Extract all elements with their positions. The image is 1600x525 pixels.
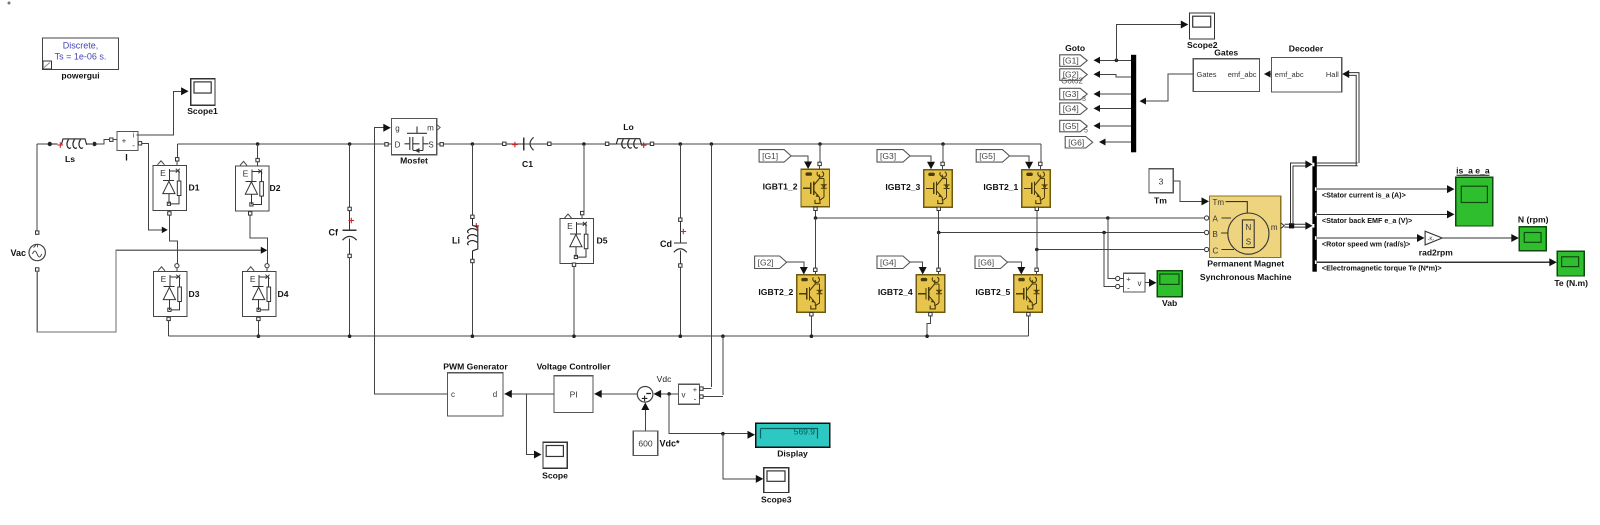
svg-text:Lo: Lo [623,122,634,132]
svg-text:Discrete,: Discrete, [63,41,99,51]
svg-text:C: C [1213,247,1219,256]
wire sum output branch to Display [669,394,723,434]
gain rad2rpm [1419,231,1453,257]
AC source Vac [10,244,45,261]
wire G1 branch to Scope2 [1116,25,1181,61]
goto tag [G4] [1060,103,1088,115]
svg-text:Tm: Tm [1213,198,1225,207]
wire 600 to sum [644,410,646,431]
wire IGBT2_5 emitter to DC- rail [1027,313,1030,316]
svg-text:<Rotor speed wm (rad/s)>: <Rotor speed wm (rad/s)> [1322,240,1410,249]
wire Voltage Controller to PWM d input [505,393,555,395]
wire DC+ top rail [178,143,1041,145]
wire phase A to PMSM [816,217,1207,219]
IGBT IGBT2_2 [758,275,825,313]
wire demux to G1 [1095,59,1132,61]
wire Vdc- sense from bottom rail [721,334,725,338]
svg-text:[G4]: [G4] [880,257,896,267]
svg-text:Ts = 1e-06 s.: Ts = 1e-06 s. [55,52,107,62]
svg-text:D3: D3 [189,289,200,299]
IGBT IGBT2_5 [975,275,1042,313]
svg-text:S: S [428,141,433,150]
svg-text:<Stator current is_a (A)>: <Stator current is_a (A)> [1322,191,1406,200]
bus wire PMSM m to bus selector [1281,223,1285,229]
capacitor C1 [503,137,551,169]
from tag [G4] [877,256,910,269]
diode D5 [560,214,608,264]
svg-text:Vdc*: Vdc* [660,439,681,449]
svg-text:v: v [1138,279,1142,288]
wire Vab to scope [1145,282,1150,284]
wire demux to G4 [1095,107,1132,109]
svg-text:[G4]: [G4] [1063,104,1079,114]
wire node B: D2 bottom to D4 top [250,215,267,264]
wire rail to IGBT2_3 collector [941,142,945,146]
corner artifact dot [8,2,11,5]
wire rail end to IGBT2_1 collector [1040,144,1042,162]
wire phase C to PMSM [1037,249,1206,251]
wire branch to Scope3 [723,434,756,479]
svg-text:emf_abc: emf_abc [1228,70,1257,79]
svg-text:Cf: Cf [329,228,339,238]
wire D3 bottom to DC- rail [167,317,170,320]
svg-text:E: E [250,274,256,284]
svg-text:-K-: -K- [1428,237,1435,243]
Voltage Controller block [537,362,612,413]
wire G3 to IGBT2_3 gate [910,156,931,162]
wire D5 bottom to DC- rail [572,263,575,266]
svg-text:Vac: Vac [10,248,26,258]
wire Decoder to Gates [1265,73,1272,75]
svg-text:[G6]: [G6] [978,257,994,267]
svg-text:+: + [693,385,698,394]
wire sum to Voltage Controller [595,393,638,395]
wire rail to IGBT1_2 collector [818,142,822,146]
svg-text:Scope2: Scope2 [1187,40,1218,50]
svg-text:m: m [1271,223,1278,232]
svg-text:<Stator back EMF e_a (V)>: <Stator back EMF e_a (V)> [1322,216,1412,225]
svg-text:Gates: Gates [1197,70,1217,79]
Gates block [1193,48,1259,92]
wire D1 top stub [177,144,179,158]
wire phase C down to IGBT2_5 collector [1036,250,1038,269]
svg-text:Scope: Scope [542,471,568,481]
svg-text:Mosfet: Mosfet [400,156,428,166]
svg-text:+: + [122,137,127,146]
scope Te [1554,251,1588,288]
IGBT IGBT1_2 [763,169,830,207]
wire Vdc measurement to sum [654,393,679,395]
PMSM port B [1205,230,1209,234]
svg-text:Decoder: Decoder [1289,44,1324,54]
wire phase B tap to Vab- [1102,231,1106,235]
wire PWM to Mosfet gate [375,128,448,394]
from tag [G2] [755,256,787,269]
wire demux to G2 [1095,74,1132,77]
wire Vac bottom loop to bridge node B [36,268,39,271]
wire torque signal [1317,261,1550,263]
inductor Lo [605,122,653,148]
wire IGBT2_1 emitter to phase C [1035,207,1038,210]
svg-text:E: E [160,168,166,178]
wire demux to G5 [1095,125,1132,127]
svg-text:Vab: Vab [1162,298,1177,308]
PMSM port A [1205,216,1209,220]
svg-text:IGBT2_1: IGBT2_1 [983,182,1018,192]
svg-text:D2: D2 [270,183,281,193]
wire IGBT2_4 emitter to DC- rail [929,313,932,316]
wire rail into Mosfet D [385,143,388,146]
wire Vac top to Ls [36,231,39,234]
svg-text:B: B [1213,230,1218,239]
diode D3 [154,267,200,317]
wire Mosfet S out [440,143,443,146]
diode D2 [236,161,281,211]
inductor Ls [48,139,97,164]
scope N rpm [1518,214,1549,250]
svg-text:Scope1: Scope1 [187,106,218,116]
wire phase B to PMSM [939,232,1206,234]
svg-text:PI: PI [570,390,578,400]
wire G2 to IGBT2_2 gate [787,262,804,267]
wire DC- bottom rail [169,335,1029,337]
svg-text:I: I [125,153,128,163]
wire I minus-output down to bridge node A [138,142,141,145]
svg-text:Te (N.m): Te (N.m) [1554,278,1588,288]
goto tag [G5] [1060,120,1088,132]
display Display [756,423,830,458]
wire rail to D5 top [582,142,586,146]
wire I i-output to Scope1 [137,91,181,135]
svg-text:PWM Generator: PWM Generator [443,362,508,372]
wire rotor speed signal [1317,237,1418,239]
wire IGBT2_2 emitter to DC- rail [810,313,813,316]
wire Vdc+ port [700,387,703,390]
svg-text:[G2]: [G2] [758,257,774,267]
capacitor Cd [660,142,687,338]
svg-text:[G1]: [G1] [1063,56,1079,66]
svg-text:[G5]: [G5] [979,151,995,161]
wire node A: D1 bottom to D3 top [169,215,177,264]
svg-text:Display: Display [777,449,808,459]
wire branch to Scope [527,394,535,455]
svg-text:Synchronous Machine: Synchronous Machine [1200,272,1292,282]
svg-text:D: D [395,141,401,150]
bus wire selector to Decoder Hall [1317,162,1358,164]
svg-text:rad2rpm: rad2rpm [1419,248,1453,258]
svg-text:[G5]: [G5] [1063,121,1079,131]
wire G4 to IGBT2_4 gate [910,262,923,267]
goto tag [G1] [1060,55,1088,67]
svg-text:IGBT1_2: IGBT1_2 [763,182,798,192]
svg-text:c: c [451,390,455,399]
demux [1131,55,1136,153]
bus selector [1312,156,1316,272]
svg-text:D5: D5 [597,236,608,246]
PWM Generator block [443,362,508,417]
Decoder block [1272,44,1342,92]
svg-text:Li: Li [452,236,460,246]
goto tag [G3] [1060,88,1088,100]
scope Vab [1157,271,1182,308]
svg-text:Tm: Tm [1154,196,1167,206]
capacitor Cf [329,142,357,338]
svg-text:+: + [1126,275,1131,284]
scope Scope1 [187,79,218,116]
svg-text:v: v [682,391,686,400]
IGBT IGBT2_3 [885,170,952,208]
bus junction [1289,223,1294,228]
wire D4 bottom to DC- rail [257,317,260,320]
PMSM block [1200,196,1292,282]
wire demux to G3 [1095,93,1132,95]
svg-text:E: E [161,274,167,284]
svg-text:[G6]: [G6] [1068,137,1084,147]
svg-text:powergui: powergui [61,71,99,81]
scope is_a e_a [1456,165,1493,226]
wire Vdc+ sense from top rail [710,142,714,146]
svg-text:S: S [1246,237,1251,246]
svg-text:Ls: Ls [65,154,75,164]
svg-text:A: A [1213,215,1219,224]
svg-text:[G3]: [G3] [880,151,896,161]
goto tag [G6] [1065,137,1093,149]
from tag [G3] [877,150,910,163]
svg-text:E: E [567,221,573,231]
diode D4 [243,267,289,317]
svg-text:N (rpm): N (rpm) [1518,214,1549,224]
svg-text:emf_abc: emf_abc [1275,70,1304,79]
svg-text:3: 3 [1159,177,1164,187]
from tag [G5] [976,150,1009,163]
scope Scope3 [761,468,792,505]
svg-text:Voltage Controller: Voltage Controller [537,362,612,372]
wire Ls to I block [96,140,109,144]
svg-text:IGBT2_3: IGBT2_3 [885,182,920,192]
svg-text:Goto: Goto [1065,43,1085,53]
svg-text:D1: D1 [189,183,200,193]
diode D1 [153,161,200,211]
scope Scope [542,442,568,480]
wire demux to G6 [1100,141,1131,143]
wire Gates output to demux [1144,74,1194,101]
svg-text:569.9: 569.9 [794,427,816,437]
svg-text:IGBT2_5: IGBT2_5 [975,287,1010,297]
bus wire up to Hall loop [1290,163,1307,225]
svg-text:600: 600 [638,439,652,449]
wire IGBT1_2 emitter to phase A [814,207,817,210]
svg-text:g: g [395,124,399,133]
from tag [G6] [975,256,1008,269]
svg-text:m: m [427,124,434,133]
svg-text:Scope3: Scope3 [761,495,792,505]
svg-text:IGBT2_4: IGBT2_4 [878,287,913,297]
svg-text:E: E [243,168,249,178]
svg-text:[G3]: [G3] [1063,89,1079,99]
wire G1 to IGBT1_2 gate [791,156,808,162]
svg-text:D4: D4 [278,289,289,299]
voltage measurement Vdc [657,374,700,404]
svg-text:d: d [493,390,497,399]
goto tag [G2] [1060,69,1088,81]
svg-text:<Electromagnetic torque Te (N*: <Electromagnetic torque Te (N*m)> [1322,264,1442,273]
svg-text:Goto2: Goto2 [1061,77,1083,86]
wire G5 to IGBT2_1 gate [1010,156,1030,162]
svg-text:Hall: Hall [1326,70,1339,79]
svg-text:IGBT2_2: IGBT2_2 [758,287,793,297]
svg-text:-: - [132,141,135,150]
svg-text:Vdc: Vdc [657,374,672,384]
wire IGBT2_3 emitter to phase B [937,207,940,210]
from tag [G1] [759,150,791,163]
svg-text:Gates: Gates [1214,48,1238,58]
svg-text:is_a e_a: is_a e_a [1456,165,1490,175]
PMSM port C [1205,247,1209,251]
powergui block [43,38,119,81]
voltage measurement Vab block [1124,273,1145,292]
wire phase A tap to Vab+ [1106,216,1110,220]
wire phase B down to IGBT2_4 collector [938,233,940,269]
wire rad2rpm to N scope [1442,237,1512,239]
svg-text:3: 3 [1082,96,1086,103]
svg-text:-: - [694,395,697,404]
Mosfet block [392,119,441,166]
wire G6 to IGBT2_5 gate [1008,262,1022,267]
scope Scope2 [1187,13,1218,50]
svg-text:Cd: Cd [660,239,672,249]
current measurement I [117,131,138,162]
constant Tm 3 [1149,169,1173,206]
constant Vdc* 600 [633,431,680,456]
IGBT IGBT2_4 [878,275,945,313]
svg-text:C1: C1 [522,159,533,169]
svg-text:[G1]: [G1] [762,151,778,161]
wire stator current signal [1317,188,1448,190]
svg-text:Permanent Magnet: Permanent Magnet [1207,259,1284,269]
sum junction [637,387,653,403]
inductor Li [452,142,479,338]
IGBT IGBT2_1 [983,170,1050,208]
wire D2 top stub [256,142,260,146]
wire Vdc- port [700,395,703,398]
svg-text:-: - [1127,284,1130,293]
wire Tm to PMSM [1173,181,1202,201]
svg-text:N: N [1246,223,1252,232]
svg-text:5: 5 [1084,128,1088,135]
wire stator back EMF signal [1317,213,1448,215]
wire phase A down to IGBT2_2 collector [815,218,817,268]
